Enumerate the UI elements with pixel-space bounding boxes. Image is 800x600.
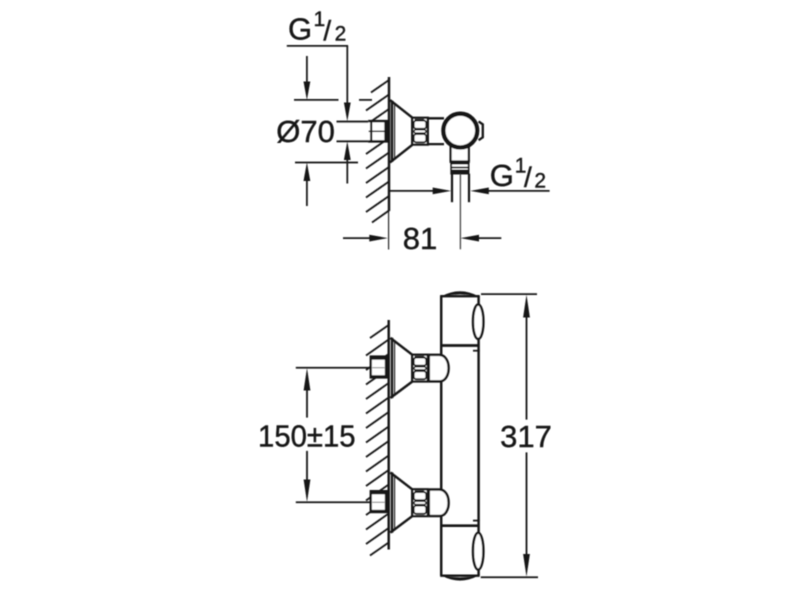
- text G1/2 right: [490, 155, 546, 194]
- hex adapter (top view): [412, 118, 428, 145]
- G1/2 leader underline: [287, 45, 348, 47]
- upper hex adapter: [412, 355, 428, 382]
- hose outlet stub: [451, 174, 453, 203]
- hex union nut (top view): [368, 121, 388, 142]
- body joint lines: [441, 344, 478, 347]
- wall line (front view): [387, 320, 389, 550]
- svg-text:G: G: [490, 158, 514, 193]
- valve body (front view): [440, 296, 442, 576]
- dia70 dim arrows: [306, 56, 308, 83]
- 150 dim line + arrows: [306, 390, 308, 418]
- svg-text:317: 317: [500, 419, 552, 454]
- bottom cap: [440, 574, 479, 576]
- wall extension line down to 81 dim: [388, 211, 390, 250]
- 317 dim extension lines: [481, 293, 537, 295]
- lower hex nut on wall: [370, 490, 389, 513]
- G1/2 arrow up to pipe bottom: [346, 160, 348, 184]
- svg-text:150±15: 150±15: [258, 418, 356, 453]
- top cap: [440, 295, 479, 297]
- svg-text:G: G: [288, 11, 312, 46]
- svg-text:2: 2: [335, 23, 347, 46]
- lower connection: escutcheon: [391, 472, 393, 533]
- wall hatch (top view): [366, 80, 389, 223]
- G1/2 dim (right, hose): [390, 190, 439, 192]
- hose coupling ribs: [451, 164, 468, 174]
- dim text G1/2 (top left): [288, 8, 346, 46]
- G1/2 leader vertical + arrow to pipe top: [346, 46, 348, 103]
- svg-text:2: 2: [534, 169, 546, 192]
- valve neck (top view): [428, 117, 444, 119]
- upper hex nut on wall: [370, 355, 389, 378]
- svg-text:/: /: [524, 162, 532, 193]
- lower hex adapter: [412, 489, 428, 516]
- side knob oval bottom: [473, 533, 483, 570]
- svg-text:Ø70: Ø70: [276, 114, 335, 149]
- elbow below valve body: [450, 140, 470, 161]
- hose centre line: [459, 174, 461, 249]
- upper connection: escutcheon: [391, 338, 393, 399]
- escutcheon rosette (top view): [391, 101, 393, 162]
- svg-text:81: 81: [403, 221, 437, 256]
- 150 dim extension lines: [296, 367, 372, 369]
- body step ticks: [473, 350, 480, 352]
- svg-text:/: /: [323, 15, 331, 46]
- upper bullet nose into body: [429, 355, 449, 382]
- wall line (top view): [388, 77, 390, 211]
- 317 dim line + arrows: [526, 317, 528, 420]
- supply pipe: [337, 123, 372, 141]
- valve body circle (top view): [443, 114, 477, 148]
- dia70 extension lines: [294, 99, 339, 101]
- lower bullet nose into body: [429, 490, 449, 517]
- wall hatch (front view): [366, 325, 389, 556]
- cap on right of circle: [479, 121, 483, 140]
- side knob oval top: [473, 305, 483, 339]
- 81 dim: [343, 237, 374, 239]
